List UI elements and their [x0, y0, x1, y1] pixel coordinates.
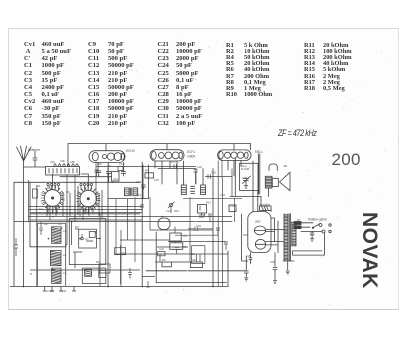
svg-text:C7: C7 — [85, 237, 89, 241]
svg-text:B: B — [30, 272, 32, 276]
svg-text:C26: C26 — [242, 176, 247, 180]
svg-text:C29: C29 — [246, 254, 251, 258]
svg-text:R1: R1 — [37, 184, 41, 188]
svg-text:R3: R3 — [75, 225, 79, 229]
svg-text:R13: R13 — [206, 201, 211, 205]
svg-text:C13: C13 — [136, 180, 141, 184]
svg-text:1865: 1865 — [255, 220, 261, 224]
svg-text:C20: C20 — [211, 171, 216, 175]
svg-text:R10: R10 — [174, 209, 179, 213]
svg-text:+C10: +C10 — [47, 289, 54, 293]
svg-text:C5b: C5b — [70, 160, 75, 164]
svg-text:C3b: C3b — [60, 159, 65, 163]
svg-text:C30: C30 — [270, 260, 275, 264]
svg-text:C15: C15 — [154, 178, 159, 182]
svg-text:R16: R16 — [243, 233, 248, 237]
svg-text:C1b: C1b — [50, 160, 55, 164]
svg-text:R6: R6 — [96, 260, 100, 264]
svg-text:C9: C9 — [107, 164, 111, 168]
svg-text:ECH3: ECH3 — [126, 149, 135, 153]
svg-text:L3: L3 — [63, 271, 66, 275]
svg-text:C6: C6 — [58, 222, 62, 226]
svg-text:.AB: .AB — [283, 164, 288, 168]
svg-text:C4: C4 — [39, 207, 43, 211]
svg-text:AB: AB — [192, 258, 196, 262]
svg-text:C22: C22 — [159, 247, 164, 251]
svg-text:L2: L2 — [63, 253, 66, 257]
svg-text:R5: R5 — [162, 258, 166, 262]
svg-text:C25: C25 — [230, 204, 235, 208]
svg-text:R2: R2 — [44, 222, 48, 226]
svg-text:C14: C14 — [136, 193, 141, 197]
svg-text:Antenne: Antenne — [28, 148, 40, 152]
svg-text:R11: R11 — [190, 252, 195, 256]
svg-text:C23: C23 — [196, 224, 201, 228]
svg-text:C12: C12 — [113, 177, 118, 181]
svg-text:C11: C11 — [119, 162, 124, 166]
svg-text:EBL1: EBL1 — [255, 150, 263, 154]
svg-text:Platten-geber: Platten-geber — [308, 218, 328, 222]
svg-text:C19: C19 — [166, 209, 171, 213]
svg-text:ECF1: ECF1 — [187, 150, 195, 154]
svg-text:Kontakte: Kontakte — [260, 203, 271, 207]
svg-text:R9: R9 — [183, 245, 187, 249]
svg-text:C16: C16 — [121, 251, 126, 255]
svg-text:nr800: nr800 — [187, 155, 195, 159]
svg-text:L1: L1 — [63, 229, 66, 233]
svg-text:R4: R4 — [145, 169, 149, 173]
svg-text:R8: R8 — [183, 234, 187, 238]
svg-text:C8: C8 — [66, 190, 70, 194]
svg-text:5mA/B: 5mA/B — [241, 167, 249, 171]
svg-text:C24: C24 — [220, 193, 225, 197]
svg-text:+C11: +C11 — [60, 289, 67, 293]
svg-text:C17: C17 — [171, 160, 176, 164]
svg-text:C10: C10 — [97, 162, 102, 166]
svg-text:R7: R7 — [297, 218, 301, 222]
svg-text:C18: C18 — [197, 165, 202, 169]
